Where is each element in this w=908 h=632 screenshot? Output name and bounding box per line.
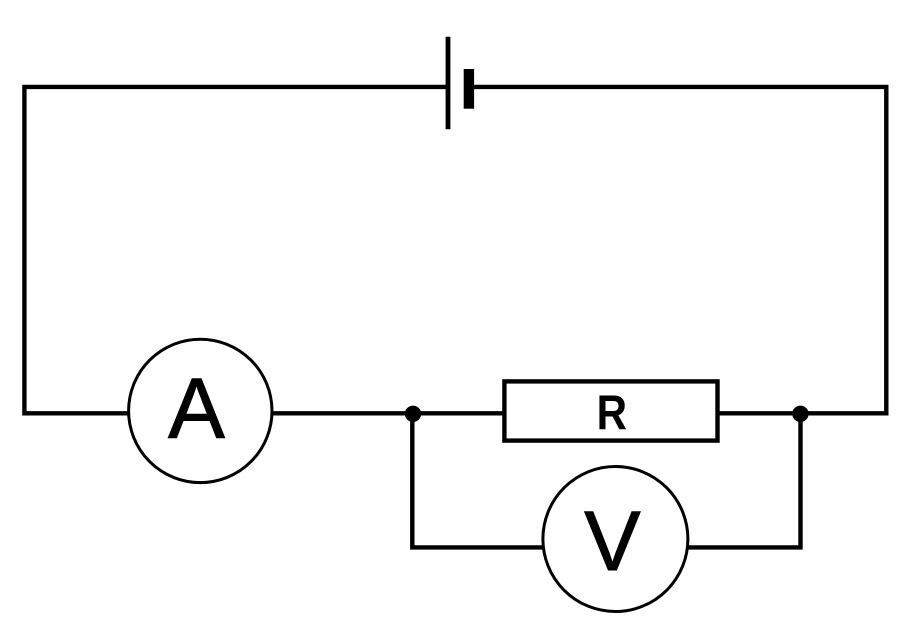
battery cell B1: long thin positive plate [446,37,451,130]
svg-text:R: R [597,384,627,440]
resistor R body [504,381,717,440]
wire: voltmeter branch left (node 1 down and right to voltmeter) [412,414,542,548]
wire: ammeter to resistor (through node 1) [272,411,505,415]
svg-text:A: A [168,361,225,456]
node 1 junction dot (left of resistor) [405,406,421,422]
wire: right loop (battery right terminal, down right side, to resistor right lead) [474,87,886,413]
ammeter U1 circle [129,339,272,482]
wire: left loop (battery left terminal, down left side, to ammeter) [24,87,448,413]
node 2 junction dot (right of resistor) [792,406,808,422]
svg-text:V: V [584,494,640,588]
wire: voltmeter branch right (voltmeter right up to node 2) [689,414,801,548]
battery cell B1: short thick negative plate [464,69,474,109]
voltmeter U2 circle [543,467,688,612]
